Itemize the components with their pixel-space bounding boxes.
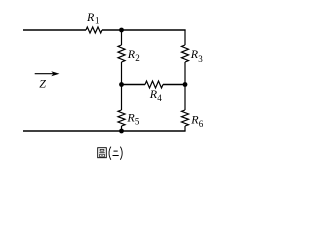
node junction top at R2 branch bbox=[119, 28, 124, 33]
wire middle-left segment bbox=[122, 84, 146, 86]
wire left branch lower lead bbox=[121, 126, 123, 131]
label R1 bbox=[86, 10, 100, 26]
svg-text:1: 1 bbox=[95, 15, 100, 25]
svg-text:4: 4 bbox=[157, 93, 162, 103]
caption left parenthesis bbox=[109, 147, 111, 160]
wire middle-right segment bbox=[163, 84, 185, 86]
svg-text:6: 6 bbox=[199, 119, 204, 129]
resistor R1 bbox=[86, 27, 102, 33]
wire top-left segment bbox=[23, 29, 86, 31]
wire top-right segment bbox=[102, 29, 186, 31]
caption right parenthesis bbox=[120, 147, 122, 160]
resistor R5 bbox=[118, 110, 125, 126]
svg-text:2: 2 bbox=[135, 53, 140, 63]
label R5 bbox=[126, 111, 139, 127]
wire right branch between R3 and middle node bbox=[184, 62, 186, 110]
svg-text:5: 5 bbox=[135, 117, 140, 127]
svg-text:3: 3 bbox=[198, 54, 203, 64]
resistor R6 bbox=[182, 110, 189, 126]
impedance arrow Z bbox=[35, 71, 60, 90]
svg-text:Z: Z bbox=[39, 76, 46, 90]
wire left branch upper lead bbox=[121, 30, 123, 45]
label R3 bbox=[190, 47, 204, 64]
resistor R2 bbox=[118, 45, 125, 62]
resistor R4 bbox=[145, 81, 163, 88]
wire right branch lower lead bbox=[184, 126, 186, 131]
svg-text:R: R bbox=[86, 10, 95, 24]
node junction bottom bbox=[119, 129, 124, 134]
node junction middle-right bbox=[183, 82, 188, 87]
node junction middle-left bbox=[119, 82, 124, 87]
label R4 bbox=[149, 87, 163, 103]
caption glyph 二 bbox=[113, 151, 119, 155]
wire left branch between R2 and middle node bbox=[121, 62, 123, 110]
wire bottom segment bbox=[23, 130, 186, 132]
caption figure glyph 圖 bbox=[98, 148, 107, 158]
label R6 bbox=[190, 113, 204, 129]
resistor R3 bbox=[182, 45, 189, 62]
label R2 bbox=[127, 47, 140, 63]
